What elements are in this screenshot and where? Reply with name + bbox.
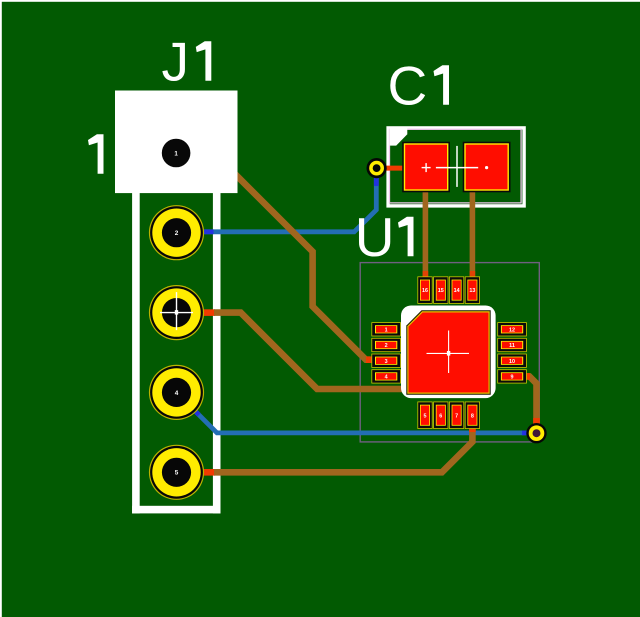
op-amp U1 thermal pad: [401, 306, 496, 399]
via B (bottom right): [526, 423, 546, 443]
svg-text:5: 5: [424, 413, 427, 419]
svg-text:16: 16: [422, 288, 428, 294]
connector J1 outline: [132, 192, 140, 513]
border frame: [0, 0, 640, 2]
wire C1.2 to U1.13 (brown): [470, 170, 476, 280]
svg-text:1: 1: [174, 150, 178, 157]
node U1 courtyard: [360, 263, 539, 442]
wire J1.2 to via A (blue): [201, 174, 376, 232]
svg-text:2: 2: [385, 343, 388, 349]
svg-text:15: 15: [438, 288, 444, 294]
op-amp U1 pin 8: [465, 402, 480, 429]
svg-text:J: J: [162, 31, 190, 93]
connector J1 pad 3 (origin crosshair): [149, 285, 204, 340]
svg-text:12: 12: [509, 328, 515, 334]
op-amp U1 pin 13: [465, 276, 480, 303]
op-amp U1 pin 2: [371, 338, 401, 352]
connector J1 pad 4: [149, 365, 204, 420]
svg-text:11: 11: [509, 343, 515, 349]
svg-text:C: C: [388, 55, 428, 117]
op-amp U1 pin 5: [417, 402, 432, 429]
svg-text:3: 3: [385, 359, 388, 365]
connector J1 pad 5: [149, 445, 204, 500]
svg-text:9: 9: [511, 375, 514, 381]
op-amp U1 pin 10: [497, 354, 527, 368]
op-amp U1 pin 16: [417, 276, 432, 303]
svg-text:4: 4: [175, 390, 179, 397]
svg-text:5: 5: [175, 470, 179, 477]
op-amp U1 pin 6: [433, 402, 448, 429]
svg-text:2: 2: [175, 230, 179, 237]
capacitor C1 center crosshair: [456, 146, 458, 187]
capacitor C1 pad 2: [463, 142, 511, 193]
wire J1.3 to U1 pad (brown): [199, 309, 215, 316]
wire J1.1 to U1.3 (brown): [232, 171, 370, 360]
capacitor C1 pad 1: [402, 142, 450, 193]
svg-text:6: 6: [439, 413, 442, 419]
wire U1.9 to via B (brown): [524, 376, 537, 433]
wire J1.5 to U1.8 (brown): [199, 469, 215, 476]
op-amp U1 pin 9: [497, 369, 527, 383]
op-amp U1 pin 7: [449, 402, 464, 429]
wire J1.4 to via B (blue): [188, 404, 537, 433]
op-amp U1 pin 3: [371, 354, 401, 368]
op-amp U1 pin 15: [433, 276, 448, 303]
op-amp U1 pin 11: [497, 338, 527, 352]
svg-text:U: U: [355, 206, 395, 268]
svg-text:14: 14: [454, 288, 460, 294]
via A (near C1): [367, 158, 387, 178]
op-amp U1 pin 4: [371, 369, 401, 383]
op-amp U1 pin 1: [371, 322, 401, 336]
svg-text:8: 8: [471, 413, 474, 419]
wire via A to C1.1 (red stub): [377, 166, 404, 171]
svg-text:7: 7: [455, 413, 458, 419]
wire C1.1 to U1.16 (brown): [423, 170, 429, 280]
connector J1 pad 1 (square): [115, 91, 238, 194]
op-amp U1 pin 14: [449, 276, 464, 303]
svg-text:10: 10: [509, 359, 515, 365]
op-amp U1 pin 12: [497, 322, 527, 336]
svg-text:13: 13: [469, 288, 475, 294]
capacitor C1 outline: [386, 126, 525, 207]
node label pin1 marker: [88, 134, 104, 174]
connector J1 pad 2: [149, 205, 204, 260]
svg-text:1: 1: [385, 328, 388, 334]
svg-text:4: 4: [385, 375, 388, 381]
